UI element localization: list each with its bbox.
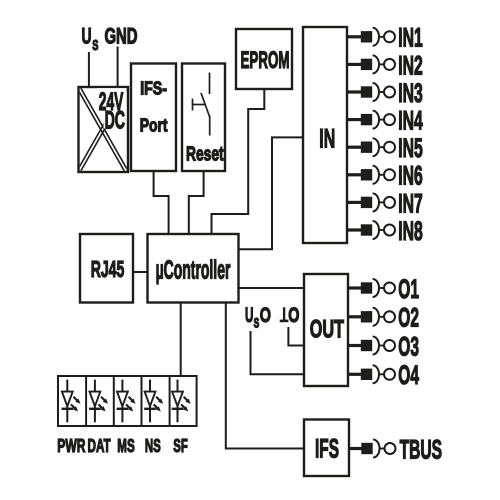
wire US to power supply (88, 52, 90, 88)
svg-text:IFS-: IFS- (140, 78, 167, 99)
input terminal IN4 (347, 106, 423, 136)
net label US O (output supply) (245, 304, 271, 331)
svg-text:NS: NS (145, 435, 161, 456)
svg-text:IN8: IN8 (398, 216, 423, 246)
block OUT (304, 274, 348, 386)
wire EPROM to uController (212, 89, 265, 234)
net label US (supply) (82, 23, 99, 54)
output terminal O2 (347, 303, 419, 333)
svg-text:O1: O1 (398, 274, 419, 304)
svg-text:TBUS: TBUS (400, 434, 442, 464)
LED indicator block (58, 376, 197, 426)
wire Reset to uController (189, 171, 204, 234)
power supply 24V DC converter (77, 86, 128, 173)
block EPROM (236, 29, 292, 89)
svg-text:IN6: IN6 (398, 161, 423, 191)
svg-text:IN1: IN1 (398, 23, 423, 53)
microcontroller U1 (148, 234, 239, 303)
wire GND to power supply (117, 47, 119, 89)
svg-text:DC: DC (105, 106, 125, 134)
svg-text:O: O (288, 304, 299, 327)
LED NS (144, 380, 163, 423)
svg-text:µController: µController (156, 257, 231, 285)
svg-text:S: S (92, 38, 98, 54)
wire uController to LED block (180, 303, 182, 377)
svg-text:U: U (82, 23, 92, 48)
LED SF (172, 380, 191, 423)
svg-text:IN2: IN2 (398, 50, 423, 80)
input terminal IN8 (347, 216, 423, 246)
input terminal IN2 (347, 50, 423, 80)
wire uController to IFS (226, 303, 304, 449)
svg-text:RJ45: RJ45 (91, 256, 125, 282)
svg-text:IN4: IN4 (398, 106, 423, 136)
LED DAT (89, 380, 108, 423)
svg-text:Port: Port (140, 114, 168, 135)
wire uController to IN (239, 137, 304, 249)
terminal TBUS (349, 434, 442, 464)
block IFS (304, 420, 349, 477)
input terminal IN1 (347, 23, 423, 53)
svg-text:OUT: OUT (310, 315, 344, 343)
LED PWR (62, 380, 81, 423)
pushbutton Reset (182, 64, 225, 172)
svg-text:O4: O4 (398, 360, 419, 390)
svg-text:U: U (245, 304, 253, 327)
wire ground O to OUT (288, 327, 304, 346)
block IN (303, 27, 347, 243)
svg-text:MS: MS (117, 435, 134, 456)
svg-text:PWR: PWR (57, 435, 85, 456)
svg-text:Reset: Reset (186, 144, 224, 166)
block IFS-Port (131, 64, 176, 172)
svg-text:SF: SF (173, 435, 188, 456)
LED MS (117, 380, 136, 423)
net label ground O (280, 304, 300, 327)
svg-text:IN5: IN5 (398, 133, 423, 163)
output terminal O4 (347, 360, 419, 390)
svg-text:IN3: IN3 (398, 78, 423, 108)
svg-text:GND: GND (105, 23, 138, 48)
input terminal IN5 (347, 133, 423, 163)
wire uController to OUT (239, 287, 305, 289)
svg-text:DAT: DAT (88, 435, 112, 456)
svg-text:S: S (254, 315, 260, 330)
wire US O to OUT (251, 331, 305, 374)
svg-text:O2: O2 (398, 303, 419, 333)
svg-text:IFS: IFS (315, 434, 339, 464)
input terminal IN3 (347, 78, 423, 108)
block RJ45 (80, 234, 133, 303)
input terminal IN6 (347, 161, 423, 191)
svg-text:O: O (260, 304, 271, 327)
output terminal O1 (347, 274, 419, 304)
svg-text:EPROM: EPROM (241, 47, 290, 74)
svg-text:IN: IN (319, 124, 335, 154)
input terminal IN7 (347, 188, 423, 218)
output terminal O3 (347, 331, 419, 361)
wire IFS-Port to uController (154, 171, 169, 234)
svg-text:IN7: IN7 (398, 188, 423, 218)
svg-text:O3: O3 (398, 331, 419, 361)
wire RJ45 to uController (133, 271, 148, 273)
